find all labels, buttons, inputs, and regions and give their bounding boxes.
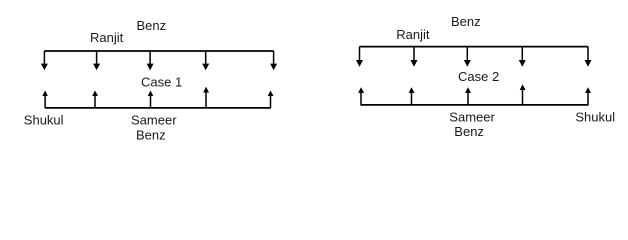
svg-text:Case 2: Case 2 xyxy=(458,69,499,84)
case 2 up arrow 2 xyxy=(409,87,415,105)
case 1 top line xyxy=(44,50,273,52)
case 1 down arrow 3 xyxy=(147,51,154,70)
svg-text:Benz: Benz xyxy=(136,128,166,143)
case 1 down arrow 4 xyxy=(202,51,209,70)
case 1 down arrow 1 xyxy=(41,51,48,70)
case 1 up arrow 1 xyxy=(42,91,48,109)
case 1 up arrow 3 xyxy=(148,91,154,109)
case 2 down arrow 5 xyxy=(585,47,592,67)
svg-text:Shukul: Shukul xyxy=(24,113,64,128)
case 2 up arrow 5 xyxy=(585,87,591,105)
svg-text:Sameer: Sameer xyxy=(131,112,177,127)
case 1 up arrow 4 xyxy=(203,87,209,109)
case 2 up arrow 1 xyxy=(358,87,364,105)
case 2 down arrow 1 xyxy=(356,47,363,67)
case 1 bottom line xyxy=(45,107,270,109)
svg-text:Benz: Benz xyxy=(451,14,481,29)
svg-text:Benz: Benz xyxy=(454,124,484,139)
case 2 up arrow 3 xyxy=(465,87,471,105)
svg-text:Ranjit: Ranjit xyxy=(90,30,124,45)
case 2 down arrow 2 xyxy=(411,47,418,67)
case 1 up arrow 2 xyxy=(92,91,98,109)
case 2 down arrow 3 xyxy=(464,47,471,67)
svg-text:Ranjit: Ranjit xyxy=(396,27,430,42)
case 2 bottom line xyxy=(361,104,588,106)
svg-text:Sameer: Sameer xyxy=(449,110,495,125)
svg-text:Shukul: Shukul xyxy=(575,109,615,124)
case 2 up arrow 4 xyxy=(520,84,526,105)
case 2 top line xyxy=(360,46,589,48)
case 1 down arrow 2 xyxy=(93,51,100,70)
svg-text:Case 1: Case 1 xyxy=(141,75,182,90)
case 1 up arrow 5 xyxy=(268,91,274,109)
case 2 down arrow 4 xyxy=(519,47,526,67)
case 1 down arrow 5 xyxy=(270,51,277,70)
svg-text:Benz: Benz xyxy=(137,18,167,33)
